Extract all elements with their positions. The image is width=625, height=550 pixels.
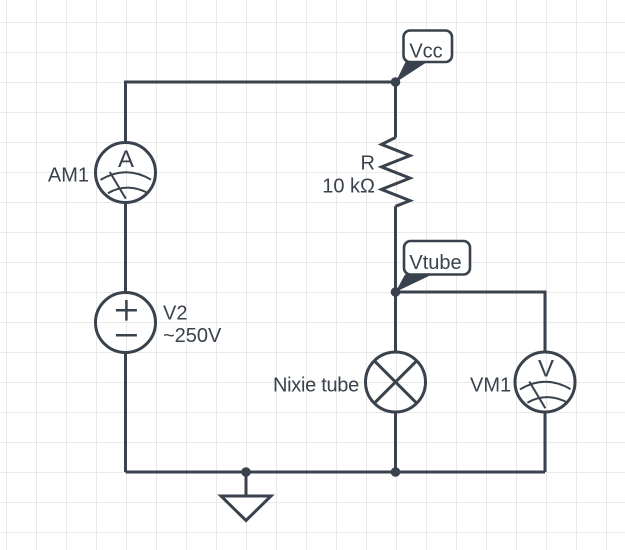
wire V2 bottom to bottom rail [124,353,127,473]
wire top-left: ammeter to Vcc node [126,82,396,143]
svg-text:10 kΩ: 10 kΩ [322,176,375,198]
V2 minus sign [116,334,137,337]
wire Vcc node to resistor top [394,82,397,138]
svg-text:Vcc: Vcc [409,41,442,63]
resistor R 10 kOhm zigzag [382,138,411,207]
svg-text:A: A [118,146,134,173]
node Vtube junction dot [391,287,401,297]
nixie tube X cross [374,361,416,403]
svg-text:VM1: VM1 [470,375,511,397]
V2 plus sign [116,300,137,321]
node Vcc callout tail [396,62,428,83]
svg-text:Vtube: Vtube [409,252,461,274]
wire Vtube node down to nixie top [394,292,397,353]
node Vcc junction dot [391,77,401,87]
node bottom junction dot [391,467,401,477]
node Vtube callout box [404,241,470,275]
svg-text:V: V [538,356,554,383]
svg-text:~250V: ~250V [163,325,222,347]
node Vcc callout box [404,31,453,63]
wire nixie bottom to bottom rail [394,412,397,473]
wire ammeter bottom to V2 top [124,203,127,293]
wire Vtube node right to VM1 top [396,292,546,352]
ammeter AM1 body [96,143,156,203]
svg-text:Nixie tube: Nixie tube [273,375,359,397]
node Vtube callout tail [396,275,433,293]
svg-text:V2: V2 [163,303,187,325]
voltmeter VM1 body [515,352,575,412]
voltmeter VM1 scale arcs and needle [520,382,571,409]
wire bottom rail [126,471,546,474]
wire VM1 bottom to bottom rail [544,412,547,473]
ground symbol [245,472,248,496]
nixie tube lamp body [366,352,426,412]
wire resistor bottom to Vtube node [394,206,397,292]
voltage source V2 body [96,293,156,353]
svg-text:AM1: AM1 [48,165,89,187]
ammeter AM1 scale arcs and needle [101,172,152,199]
svg-text:R: R [361,153,375,175]
node ground junction dot [241,467,251,477]
